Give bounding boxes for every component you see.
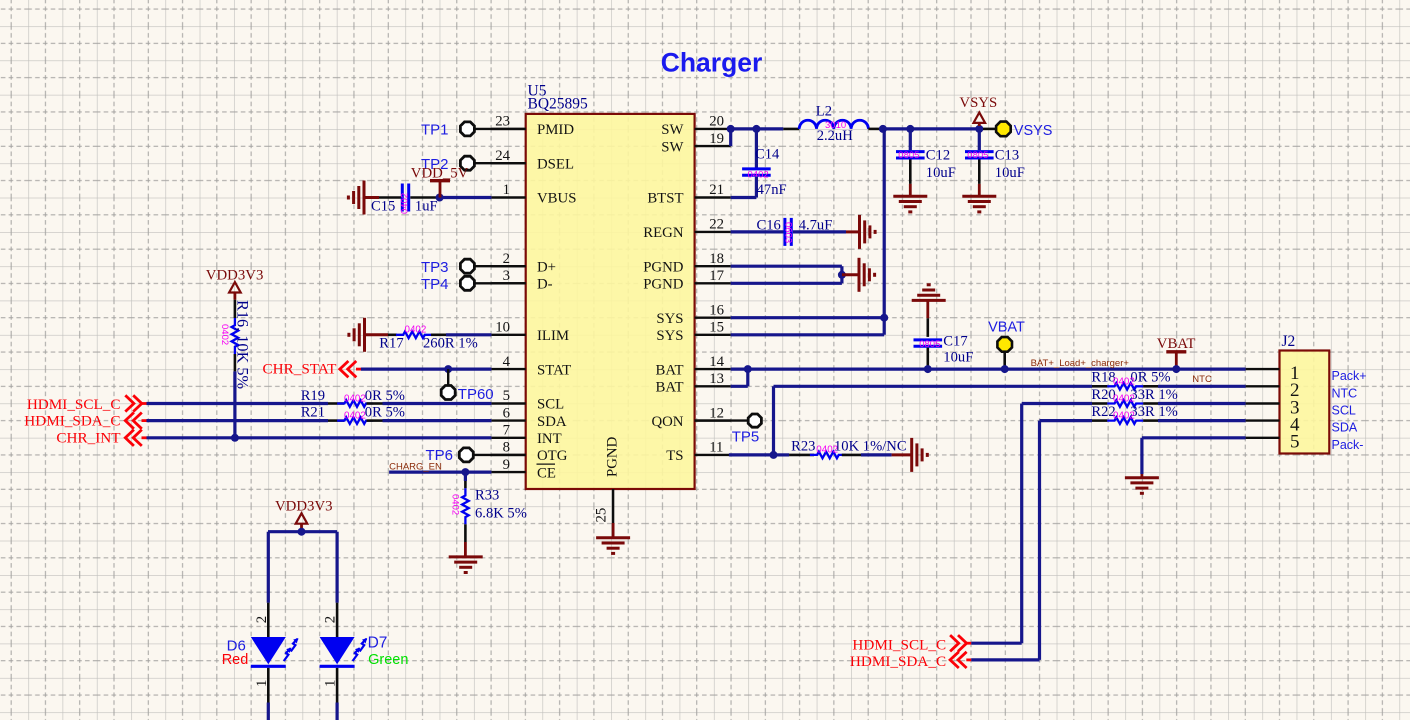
svg-text:C14: C14 [755, 146, 780, 162]
svg-text:SW: SW [661, 139, 683, 155]
svg-text:0805: 0805 [919, 339, 940, 350]
svg-text:11: 11 [709, 440, 723, 456]
svg-text:0R 5%: 0R 5% [1130, 370, 1170, 386]
svg-text:0805: 0805 [898, 150, 919, 161]
svg-text:J2: J2 [1282, 333, 1296, 350]
svg-text:16: 16 [709, 302, 724, 318]
svg-text:6: 6 [503, 405, 510, 421]
svg-text:25: 25 [594, 508, 610, 523]
svg-text:0R 5%: 0R 5% [365, 404, 405, 420]
svg-text:Pack+: Pack+ [1332, 369, 1367, 383]
svg-text:18: 18 [709, 251, 724, 267]
svg-text:SCL: SCL [537, 397, 564, 413]
svg-text:SCL: SCL [1332, 404, 1356, 418]
svg-text:L2: L2 [816, 104, 832, 120]
svg-text:BTST: BTST [647, 191, 683, 207]
svg-text:24: 24 [495, 148, 510, 164]
svg-text:10uF: 10uF [926, 165, 956, 181]
svg-text:SYS: SYS [656, 328, 683, 344]
svg-text:260R 1%: 260R 1% [423, 336, 478, 352]
svg-text:20: 20 [709, 114, 724, 130]
svg-text:1: 1 [503, 182, 510, 198]
svg-text:C17: C17 [943, 334, 967, 350]
svg-text:CHR_INT: CHR_INT [56, 430, 121, 447]
svg-text:2: 2 [323, 616, 339, 623]
svg-text:INT: INT [537, 431, 562, 447]
svg-text:0402: 0402 [450, 494, 461, 515]
svg-text:R17: R17 [379, 336, 403, 352]
svg-text:TP1: TP1 [421, 122, 449, 139]
svg-text:REGN: REGN [643, 225, 684, 241]
svg-text:SDA: SDA [1332, 421, 1358, 435]
svg-text:2: 2 [254, 616, 270, 623]
svg-text:STAT: STAT [537, 362, 571, 378]
svg-text:5: 5 [1290, 432, 1300, 453]
svg-text:PGND: PGND [643, 277, 684, 293]
svg-text:3010: 3010 [825, 120, 846, 131]
svg-text:TS: TS [666, 448, 683, 464]
svg-text:DSEL: DSEL [537, 156, 574, 172]
svg-text:3: 3 [503, 268, 510, 284]
svg-text:21: 21 [709, 182, 724, 198]
svg-text:C12: C12 [926, 148, 950, 164]
svg-text:14: 14 [709, 354, 724, 370]
svg-text:22: 22 [709, 217, 724, 233]
svg-text:5: 5 [503, 388, 510, 404]
svg-text:10: 10 [495, 320, 510, 336]
svg-text:HDMI_SCL_C: HDMI_SCL_C [852, 637, 946, 654]
svg-text:SW: SW [661, 122, 683, 138]
svg-text:19: 19 [709, 131, 724, 147]
svg-text:R23: R23 [791, 438, 815, 454]
svg-text:15: 15 [709, 320, 724, 336]
svg-text:33R 1%: 33R 1% [1130, 404, 1177, 420]
svg-text:17: 17 [709, 268, 724, 284]
svg-text:D+: D+ [537, 259, 556, 275]
svg-text:10K 1%/NC: 10K 1%/NC [834, 438, 907, 454]
svg-text:CHARG_EN: CHARG_EN [389, 462, 442, 473]
svg-text:VBUS: VBUS [537, 191, 576, 207]
svg-text:HDMI_SCL_C: HDMI_SCL_C [27, 396, 121, 413]
svg-text:BAT+_Load+_charger+: BAT+_Load+_charger+ [1031, 358, 1130, 369]
svg-text:SDA: SDA [537, 414, 567, 430]
svg-text:1uF: 1uF [415, 199, 438, 215]
svg-text:CE: CE [537, 465, 556, 481]
svg-text:BQ25895: BQ25895 [528, 96, 589, 113]
svg-text:VDD_5V: VDD_5V [411, 166, 469, 182]
svg-text:BAT: BAT [656, 380, 684, 396]
svg-text:0402: 0402 [405, 325, 427, 336]
svg-text:0402: 0402 [1113, 376, 1135, 387]
svg-text:NTC: NTC [1192, 374, 1212, 385]
svg-text:CHR_STAT: CHR_STAT [263, 361, 338, 378]
svg-text:R21: R21 [301, 404, 325, 420]
svg-text:2: 2 [503, 251, 510, 267]
svg-text:SYS: SYS [656, 311, 683, 327]
svg-text:1: 1 [254, 680, 270, 687]
svg-text:D7: D7 [368, 635, 388, 652]
svg-text:0402: 0402 [1113, 394, 1135, 405]
svg-text:0402: 0402 [748, 170, 769, 181]
svg-text:C13: C13 [995, 148, 1019, 164]
svg-text:VDD3V3: VDD3V3 [275, 499, 333, 515]
svg-text:6.8K 5%: 6.8K 5% [475, 506, 527, 522]
svg-text:OTG: OTG [537, 448, 568, 464]
svg-text:Pack-: Pack- [1332, 438, 1364, 452]
svg-text:BAT: BAT [656, 362, 684, 378]
svg-text:Charger: Charger [661, 48, 763, 78]
svg-text:4.7uF: 4.7uF [799, 218, 833, 234]
svg-text:47nF: 47nF [757, 182, 787, 198]
svg-text:10uF: 10uF [995, 165, 1025, 181]
svg-text:0402: 0402 [399, 193, 410, 214]
svg-text:VBAT: VBAT [988, 320, 1025, 336]
svg-text:TP4: TP4 [421, 276, 449, 293]
svg-text:7: 7 [503, 423, 510, 439]
svg-text:D-: D- [537, 277, 553, 293]
svg-text:0402: 0402 [344, 410, 366, 421]
svg-text:10uF: 10uF [943, 350, 973, 366]
svg-text:1: 1 [323, 680, 339, 687]
svg-text:TP3: TP3 [421, 259, 449, 276]
svg-text:Red: Red [222, 652, 249, 668]
svg-text:0603: 0603 [783, 222, 794, 243]
svg-text:HDMI_SDA_C: HDMI_SDA_C [850, 653, 946, 670]
svg-text:C15: C15 [371, 199, 395, 215]
svg-text:VBAT: VBAT [1157, 336, 1196, 352]
svg-text:33R 1%: 33R 1% [1130, 387, 1177, 403]
svg-text:0R 5%: 0R 5% [365, 388, 405, 404]
svg-text:0805: 0805 [967, 150, 988, 161]
svg-text:PMID: PMID [537, 122, 574, 138]
svg-text:Green: Green [368, 652, 408, 668]
svg-text:TP5: TP5 [732, 428, 760, 445]
svg-text:HDMI_SDA_C: HDMI_SDA_C [24, 413, 120, 430]
svg-text:23: 23 [495, 114, 510, 130]
svg-text:8: 8 [503, 440, 510, 456]
svg-text:VSYS: VSYS [959, 95, 997, 111]
svg-text:PGND: PGND [643, 259, 684, 275]
svg-text:0402: 0402 [1113, 411, 1135, 422]
svg-text:R16, 10K 5%: R16, 10K 5% [234, 300, 253, 389]
svg-text:13: 13 [709, 371, 724, 387]
svg-text:9: 9 [503, 457, 510, 473]
svg-text:0402: 0402 [219, 324, 230, 345]
svg-text:VSYS: VSYS [1014, 123, 1053, 139]
svg-text:ILIM: ILIM [537, 328, 569, 344]
svg-text:R33: R33 [475, 488, 499, 504]
svg-text:PGND: PGND [605, 436, 621, 477]
svg-text:12: 12 [709, 405, 724, 421]
svg-text:R19: R19 [301, 388, 325, 404]
svg-text:TP60: TP60 [458, 386, 494, 403]
svg-text:0402: 0402 [344, 393, 366, 404]
svg-text:QON: QON [651, 414, 683, 430]
svg-text:C16: C16 [757, 218, 781, 234]
svg-text:4: 4 [503, 354, 511, 370]
svg-text:NTC: NTC [1332, 386, 1358, 400]
